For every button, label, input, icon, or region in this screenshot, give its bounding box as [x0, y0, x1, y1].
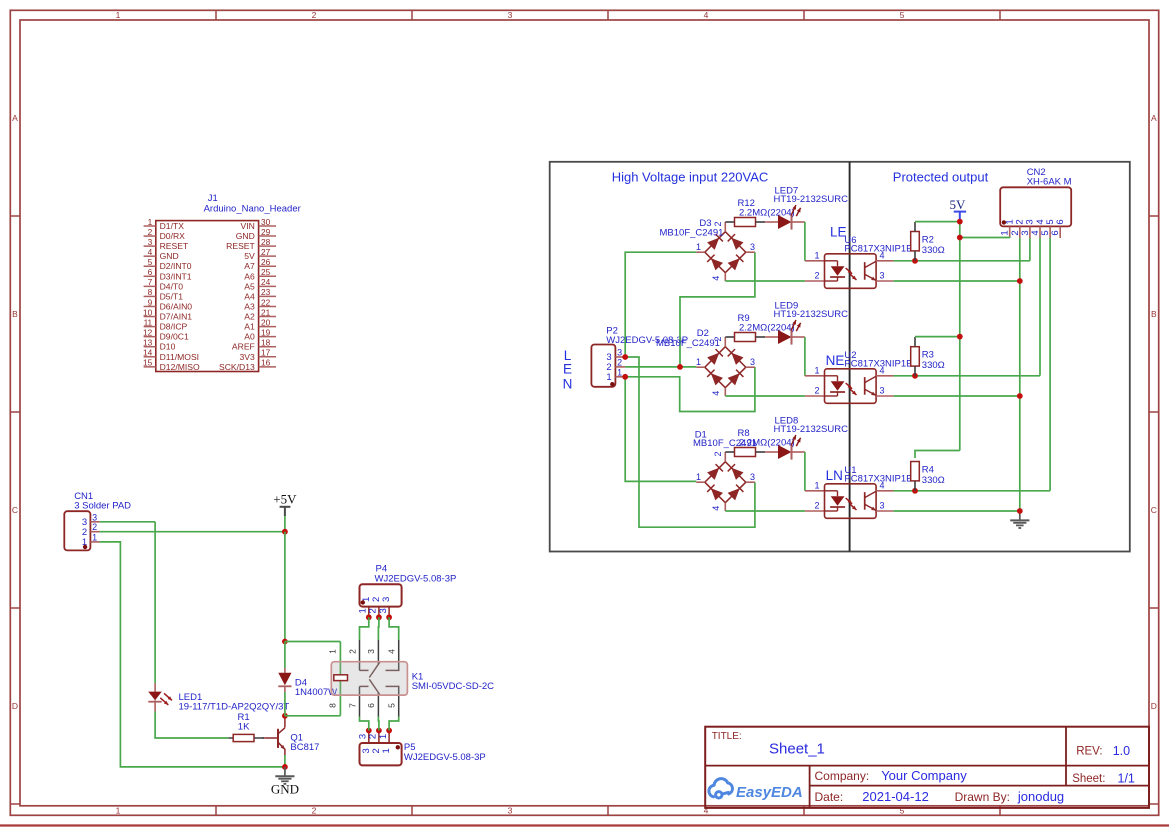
svg-text:+5V: +5V — [273, 491, 297, 506]
svg-text:Drawn By:: Drawn By: — [955, 790, 1010, 804]
svg-text:5V: 5V — [244, 251, 255, 261]
svg-text:AREF: AREF — [232, 342, 255, 352]
svg-text:HT19-2132SURC: HT19-2132SURC — [774, 194, 849, 205]
svg-text:3: 3 — [880, 386, 885, 396]
svg-text:6: 6 — [148, 267, 153, 277]
svg-text:A0: A0 — [244, 332, 255, 342]
svg-text:D2/INT0: D2/INT0 — [160, 261, 192, 271]
svg-text:GND: GND — [271, 782, 299, 797]
svg-text:21: 21 — [261, 307, 271, 317]
svg-text:2: 2 — [312, 10, 317, 20]
svg-text:330Ω: 330Ω — [922, 475, 945, 486]
svg-text:24: 24 — [261, 277, 271, 287]
svg-text:1: 1 — [696, 242, 701, 252]
svg-text:12: 12 — [143, 327, 153, 337]
svg-text:A2: A2 — [244, 312, 255, 322]
svg-text:WJ2EDGV-5.08-3P: WJ2EDGV-5.08-3P — [404, 752, 486, 763]
svg-text:9: 9 — [148, 297, 153, 307]
svg-text:4: 4 — [387, 649, 397, 654]
svg-text:4: 4 — [148, 247, 153, 257]
svg-text:1: 1 — [606, 372, 611, 383]
svg-text:SCK/D13: SCK/D13 — [219, 362, 255, 372]
svg-text:28: 28 — [261, 237, 271, 247]
svg-text:BC817: BC817 — [290, 742, 319, 753]
svg-text:10: 10 — [143, 307, 153, 317]
svg-text:J1: J1 — [208, 193, 218, 204]
svg-text:GND: GND — [160, 251, 179, 261]
svg-text:2: 2 — [617, 357, 622, 367]
svg-text:1K: 1K — [238, 721, 250, 732]
svg-text:D5/T1: D5/T1 — [160, 291, 184, 301]
svg-text:NE: NE — [826, 353, 845, 368]
svg-text:7: 7 — [148, 277, 153, 287]
svg-text:D6/AIN0: D6/AIN0 — [160, 301, 193, 311]
svg-text:2: 2 — [148, 227, 153, 237]
svg-text:14: 14 — [143, 348, 153, 358]
svg-text:High Voltage input 220VAC: High Voltage input 220VAC — [612, 170, 769, 185]
svg-text:2.2MΩ(2204): 2.2MΩ(2204) — [739, 208, 795, 219]
svg-text:3V3: 3V3 — [240, 352, 256, 362]
svg-text:27: 27 — [261, 247, 271, 257]
svg-text:330Ω: 330Ω — [922, 360, 945, 371]
svg-text:C: C — [1151, 505, 1157, 515]
svg-text:1: 1 — [814, 250, 819, 260]
svg-text:Arduino_Nano_Header: Arduino_Nano_Header — [204, 204, 301, 215]
svg-text:4: 4 — [711, 276, 721, 281]
svg-text:D8/ICP: D8/ICP — [160, 322, 188, 332]
svg-text:5: 5 — [900, 10, 905, 20]
svg-text:R4: R4 — [922, 465, 934, 476]
svg-text:8: 8 — [148, 287, 153, 297]
svg-text:6: 6 — [1055, 219, 1066, 224]
svg-text:8: 8 — [327, 703, 337, 708]
svg-text:30: 30 — [261, 217, 271, 227]
svg-text:1: 1 — [327, 649, 337, 654]
svg-text:Your Company: Your Company — [881, 768, 967, 783]
svg-text:2: 2 — [347, 649, 357, 654]
svg-text:1: 1 — [617, 367, 622, 377]
svg-text:A: A — [12, 113, 18, 123]
svg-text:N: N — [563, 376, 573, 391]
svg-text:2.2MΩ(2204): 2.2MΩ(2204) — [739, 438, 795, 449]
svg-text:5: 5 — [387, 703, 397, 708]
svg-text:D: D — [12, 701, 18, 711]
svg-text:3: 3 — [508, 10, 513, 20]
svg-text:D1/TX: D1/TX — [160, 221, 185, 231]
svg-text:RESET: RESET — [226, 241, 255, 251]
svg-text:2: 2 — [92, 522, 97, 532]
svg-text:29: 29 — [261, 227, 271, 237]
svg-text:GND: GND — [236, 231, 255, 241]
svg-text:B: B — [12, 309, 18, 319]
svg-text:E: E — [563, 362, 572, 377]
svg-text:1: 1 — [148, 217, 153, 227]
svg-text:18: 18 — [261, 338, 271, 348]
svg-text:5: 5 — [148, 257, 153, 267]
svg-text:D10: D10 — [160, 342, 176, 352]
svg-text:2.2MΩ(2204): 2.2MΩ(2204) — [739, 323, 795, 334]
svg-text:D11/MOSI: D11/MOSI — [160, 352, 199, 362]
svg-text:3: 3 — [508, 806, 513, 816]
svg-text:D4/T0: D4/T0 — [160, 281, 184, 291]
svg-text:3: 3 — [750, 472, 755, 482]
svg-text:A3: A3 — [244, 301, 255, 311]
svg-text:A: A — [1151, 113, 1157, 123]
svg-text:23: 23 — [261, 287, 271, 297]
svg-text:2: 2 — [713, 221, 723, 226]
svg-text:25: 25 — [261, 267, 271, 277]
svg-text:R3: R3 — [922, 350, 934, 361]
svg-text:C: C — [12, 505, 18, 515]
svg-text:22: 22 — [261, 297, 271, 307]
svg-text:1: 1 — [696, 357, 701, 367]
svg-text:R2: R2 — [922, 235, 934, 246]
svg-text:6: 6 — [1050, 230, 1061, 235]
svg-text:2: 2 — [814, 501, 819, 511]
svg-text:MB10F_C2491: MB10F_C2491 — [656, 338, 720, 349]
svg-text:WJ2EDGV-5.08-3P: WJ2EDGV-5.08-3P — [375, 573, 457, 584]
svg-text:jonodug: jonodug — [1017, 789, 1064, 804]
svg-text:16: 16 — [261, 358, 271, 368]
svg-text:1: 1 — [116, 806, 121, 816]
svg-text:Protected output: Protected output — [893, 170, 989, 185]
svg-text:3: 3 — [617, 348, 622, 358]
svg-text:REV:: REV: — [1076, 746, 1102, 758]
svg-text:1: 1 — [116, 10, 121, 20]
svg-text:Sheet_1: Sheet_1 — [769, 741, 825, 758]
svg-text:1: 1 — [814, 365, 819, 375]
svg-text:2: 2 — [814, 386, 819, 396]
svg-text:A6: A6 — [244, 271, 255, 281]
svg-text:D7/AIN1: D7/AIN1 — [160, 312, 193, 322]
svg-text:6: 6 — [366, 703, 376, 708]
svg-text:Date:: Date: — [815, 790, 844, 804]
svg-text:7: 7 — [347, 703, 357, 708]
svg-text:A4: A4 — [244, 291, 255, 301]
svg-text:MB10F_C2491: MB10F_C2491 — [660, 227, 724, 238]
svg-text:3 Solder PAD: 3 Solder PAD — [74, 500, 131, 511]
svg-text:A1: A1 — [244, 322, 255, 332]
svg-text:2: 2 — [814, 271, 819, 281]
svg-text:15: 15 — [143, 358, 153, 368]
svg-text:PC817X3NIP1B: PC817X3NIP1B — [844, 474, 912, 485]
svg-text:4: 4 — [704, 10, 709, 20]
svg-text:RESET: RESET — [160, 241, 189, 251]
svg-text:2: 2 — [713, 451, 723, 456]
svg-text:HT19-2132SURC: HT19-2132SURC — [774, 309, 849, 320]
svg-text:1: 1 — [378, 734, 389, 739]
svg-text:Company:: Company: — [815, 769, 870, 783]
svg-text:17: 17 — [261, 348, 271, 358]
svg-text:VIN: VIN — [240, 221, 254, 231]
svg-text:D: D — [1151, 701, 1157, 711]
svg-text:11: 11 — [144, 317, 153, 327]
svg-text:19-117/T1D-AP2Q2QY/3T: 19-117/T1D-AP2Q2QY/3T — [179, 701, 290, 712]
svg-text:5V: 5V — [949, 197, 966, 212]
svg-text:D12/MISO: D12/MISO — [160, 362, 200, 372]
svg-text:3: 3 — [366, 649, 376, 654]
svg-text:2: 2 — [312, 806, 317, 816]
svg-text:19: 19 — [261, 327, 271, 337]
svg-text:PC817X3NIP1B: PC817X3NIP1B — [844, 359, 912, 370]
svg-text:3: 3 — [92, 512, 97, 522]
svg-text:Sheet:: Sheet: — [1072, 773, 1105, 785]
svg-text:SMI-05VDC-SD-2C: SMI-05VDC-SD-2C — [412, 681, 494, 692]
svg-text:LN: LN — [826, 468, 843, 483]
svg-text:1: 1 — [696, 472, 701, 482]
svg-text:20: 20 — [261, 317, 271, 327]
svg-text:4: 4 — [711, 391, 721, 396]
svg-text:A7: A7 — [244, 261, 255, 271]
svg-text:1.0: 1.0 — [1113, 744, 1130, 758]
svg-text:TITLE:: TITLE: — [712, 731, 742, 742]
svg-text:1: 1 — [814, 480, 819, 490]
svg-text:1: 1 — [381, 748, 392, 753]
svg-text:PC817X3NIP1B: PC817X3NIP1B — [844, 244, 912, 255]
svg-text:1/1: 1/1 — [1118, 771, 1135, 785]
svg-text:D3/INT1: D3/INT1 — [160, 271, 192, 281]
svg-text:3: 3 — [148, 237, 153, 247]
svg-text:26: 26 — [261, 257, 271, 267]
svg-text:HT19-2132SURC: HT19-2132SURC — [774, 424, 849, 435]
svg-text:EasyEDA: EasyEDA — [736, 784, 803, 801]
svg-text:D0/RX: D0/RX — [160, 231, 186, 241]
svg-text:1: 1 — [92, 532, 97, 542]
svg-text:4: 4 — [711, 506, 721, 511]
svg-text:3: 3 — [880, 271, 885, 281]
svg-text:3: 3 — [750, 357, 755, 367]
svg-text:3: 3 — [750, 242, 755, 252]
svg-text:B: B — [1151, 309, 1157, 319]
svg-text:D9/0C1: D9/0C1 — [160, 332, 189, 342]
svg-text:3: 3 — [378, 608, 389, 613]
svg-text:330Ω: 330Ω — [922, 245, 945, 256]
svg-text:3: 3 — [381, 597, 392, 602]
svg-text:3: 3 — [880, 501, 885, 511]
svg-text:13: 13 — [143, 338, 153, 348]
svg-text:A5: A5 — [244, 281, 255, 291]
svg-text:2021-04-12: 2021-04-12 — [862, 789, 929, 804]
svg-text:XH-6AK M: XH-6AK M — [1027, 176, 1072, 187]
